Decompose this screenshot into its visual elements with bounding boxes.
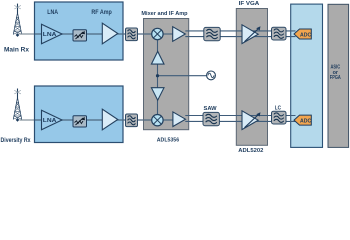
IC ADL5202 (IF VGA)	[236, 9, 267, 146]
svg-text:SAW: SAW	[204, 106, 218, 112]
block ADC container	[291, 4, 323, 147]
ADC (top)	[294, 29, 312, 39]
amplifier LNA (main)	[42, 24, 63, 43]
wire diversity RF path	[35, 119, 152, 121]
wire differential pair bottom (+)	[185, 115, 295, 117]
amplifier VGA (top)	[242, 25, 261, 44]
IC ASIC or FPGA	[328, 4, 349, 147]
wire LO vertical	[157, 40, 159, 115]
ADC (bottom)	[294, 115, 312, 125]
amplifier LO buffer (down)	[151, 88, 164, 101]
oscillator LO	[207, 71, 216, 80]
svg-text:LNA: LNA	[47, 10, 58, 16]
filter RF BPF (diversity)	[126, 114, 138, 127]
IC ADL5356 (Mixer and IF Amp)	[144, 19, 189, 130]
wire differential pair top (-)	[185, 36, 295, 38]
node LO junction	[156, 74, 159, 77]
mixer (bottom)	[152, 115, 163, 126]
svg-text:Main Rx: Main Rx	[4, 48, 30, 54]
svg-text:IF VGA: IF VGA	[239, 1, 260, 7]
filter SAW (bottom mid)	[203, 112, 219, 125]
svg-text:LNA: LNA	[43, 118, 58, 124]
wire main RF path	[35, 33, 152, 35]
svg-text:LNA: LNA	[43, 32, 58, 38]
block front-end Diversity (LNA box)	[35, 86, 124, 143]
mixer (top)	[152, 28, 163, 39]
block front-end Main (LNA box)	[35, 2, 124, 60]
wire differential pair bottom (-)	[185, 120, 295, 122]
wire antenna2 to LNA block	[20, 119, 36, 121]
wire top row inside ADL5356	[144, 33, 174, 35]
variable attenuator (diversity)	[73, 116, 87, 127]
svg-text:Diversity Rx: Diversity Rx	[1, 138, 32, 144]
wire antenna1 to LNA block	[20, 33, 36, 35]
amplifier LO buffer (up)	[151, 51, 164, 64]
variable attenuator (main)	[73, 30, 87, 41]
wire bottom row inside ADL5356	[144, 119, 174, 121]
svg-text:ADL5356: ADL5356	[157, 137, 180, 143]
amplifier VGA (bottom)	[242, 111, 261, 130]
antenna ANT1 (Main Rx)	[13, 4, 22, 37]
filter IF (top mid)	[204, 27, 220, 40]
svg-text:FPGA: FPGA	[330, 75, 341, 81]
amplifier RF Amp (diversity)	[102, 109, 118, 130]
wire LO horizontal to oscillator	[158, 75, 207, 77]
amplifier RF Amp (main)	[102, 23, 118, 44]
wire differential pair top (+)	[185, 30, 295, 32]
filter LC (bottom right)	[272, 111, 287, 124]
svg-text:RF Amp: RF Amp	[91, 10, 112, 16]
amplifier IF amp (top)	[173, 27, 186, 42]
svg-text:ADL5202: ADL5202	[238, 148, 263, 154]
amplifier IF amp (bottom)	[173, 112, 186, 127]
filter RF BPF (main)	[126, 28, 138, 41]
svg-text:ADC: ADC	[300, 32, 312, 38]
amplifier LNA (diversity)	[42, 110, 63, 129]
antenna ANT2 (Diversity Rx)	[13, 89, 22, 122]
filter anti-alias (top right)	[272, 27, 287, 40]
svg-text:Mixer and IF Amp: Mixer and IF Amp	[141, 11, 188, 17]
svg-text:ADC: ADC	[300, 119, 312, 125]
